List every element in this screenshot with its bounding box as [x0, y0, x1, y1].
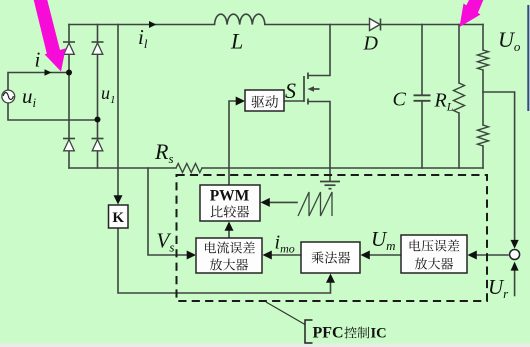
resistor divider upper — [478, 50, 489, 70]
arrow Vs into current error amp — [187, 251, 196, 260]
arrow from current amp into PWM comparator — [225, 222, 234, 231]
inductor L — [215, 14, 265, 24]
wire ac source bottom lead — [8, 102, 98, 120]
svg-text:L: L — [230, 29, 243, 54]
arrow K signal into multiplier bottom — [326, 274, 335, 283]
wire ac source top lead — [8, 73, 66, 91]
wire bridge right column — [97, 25, 99, 169]
wire driver to gate — [284, 100, 303, 102]
arrow into voltage error amp — [468, 251, 477, 260]
svg-text:i: i — [35, 48, 41, 72]
wire PWM output up to driver input — [229, 101, 237, 185]
current error amplifier block — [196, 238, 262, 273]
svg-text:K: K — [112, 210, 124, 226]
svg-text:PFC: PFC — [313, 325, 344, 342]
svg-text:C: C — [393, 89, 407, 111]
wire divider middle — [482, 70, 484, 125]
wire current amp to PWM comparator — [228, 230, 230, 238]
wire MOSFET drain to top rail — [308, 25, 330, 76]
bottom edge band — [0, 344, 530, 347]
wire divider branch top — [482, 25, 484, 51]
wire divider bottom — [482, 146, 484, 168]
arrow imo into current error amp — [263, 251, 272, 260]
resistor R_L — [454, 83, 465, 113]
wire summing junction to voltage error amp — [477, 254, 508, 256]
wire RL branch bottom — [458, 113, 460, 168]
transistor Q1 switch S (MOSFET) — [304, 73, 320, 105]
node junction ac-bottom to bridge — [95, 117, 101, 123]
dashed PFC control IC boundary — [177, 175, 488, 301]
wire RL branch top — [458, 25, 460, 84]
arrow into driver block — [236, 97, 245, 106]
wire voltage amp to multiplier — [370, 254, 401, 256]
wire divider tap to summing junction — [483, 92, 515, 240]
ground (power stage) — [320, 182, 340, 189]
wire capacitor C branch bottom — [421, 102, 423, 169]
driver block (驱动) — [245, 90, 284, 111]
wire top rail (bridge + output to diode D and output node) — [69, 24, 215, 26]
diode D — [370, 19, 381, 31]
wire multiplier imo to current error amp — [272, 254, 301, 256]
sawtooth generator — [298, 192, 332, 216]
resistor R_s — [176, 164, 202, 173]
svg-text:S: S — [285, 78, 296, 103]
resistor divider lower — [478, 125, 489, 146]
bridge diode D3 (bottom left) — [63, 138, 75, 140]
wire sawtooth to PWM comparator — [268, 201, 297, 203]
arrow divider feedback into summing junction — [511, 240, 519, 249]
summing junction node — [510, 250, 520, 260]
multiplier block — [301, 242, 360, 273]
wire bridge left column — [68, 25, 70, 169]
PFC control IC label bracket — [305, 320, 313, 343]
arrow sawtooth into PWM comparator — [261, 198, 270, 207]
bridge diode D2 (top right) — [92, 41, 104, 43]
annotation arrow 1 (magenta, input node) — [33, 0, 66, 72]
svg-text:D: D — [363, 33, 379, 55]
wire Ur input to summing junction — [514, 269, 516, 296]
svg-text:PWM: PWM — [210, 188, 250, 205]
wire MOSFET source to ground — [308, 102, 330, 181]
wire bottom return rail — [69, 167, 176, 169]
arrow into K block — [114, 195, 123, 204]
bridge diode D1 (top left) — [63, 41, 75, 43]
wire capacitor C branch top — [421, 25, 423, 95]
voltage error amplifier block — [401, 235, 467, 273]
PFC control IC label leader line — [266, 302, 305, 325]
svg-text:IC: IC — [371, 326, 387, 342]
K block — [109, 205, 129, 228]
wire K output to multiplier lower input — [118, 228, 331, 293]
PWM comparator block U2 — [200, 185, 260, 221]
right edge blue bar — [527, 5, 529, 111]
capacitor C — [414, 95, 431, 101]
current arrow i on ac lead — [45, 69, 52, 76]
bridge diode D4 (bottom right) — [92, 138, 104, 140]
wire u1 tap to K block — [117, 25, 119, 200]
node junction ac-top to bridge — [66, 70, 72, 76]
arrow Ur into summing junction — [511, 262, 519, 271]
arrow Um into multiplier — [361, 251, 370, 260]
AC source u_i — [2, 90, 15, 103]
current arrow i_l on top rail — [149, 21, 156, 28]
annotation arrow 2 (magenta, output node) — [460, 0, 486, 27]
wire Vs tap from Rs to current error amp — [148, 168, 190, 255]
